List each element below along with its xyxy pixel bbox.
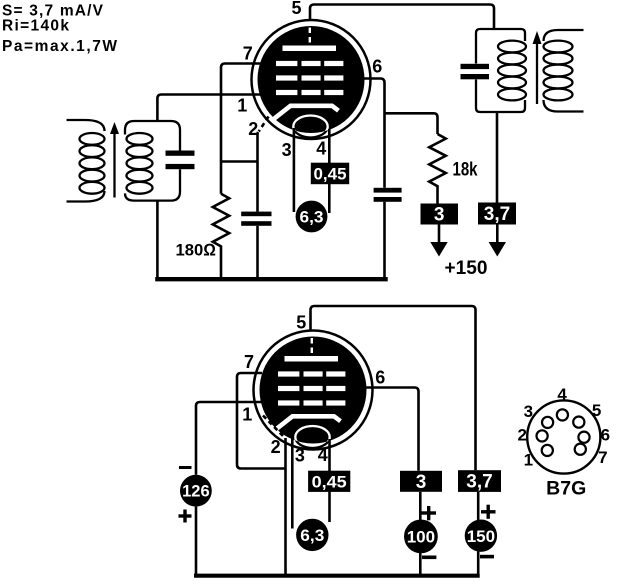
svg-text:6: 6: [601, 426, 610, 445]
svg-text:150: 150: [467, 527, 495, 546]
svg-text:126: 126: [182, 483, 210, 501]
svg-text:2: 2: [517, 426, 526, 445]
svg-text:4: 4: [318, 445, 328, 465]
svg-text:0,45: 0,45: [312, 473, 347, 492]
svg-text:0,45: 0,45: [314, 165, 347, 184]
svg-text:Pa=max.1,7W: Pa=max.1,7W: [2, 38, 117, 55]
svg-text:6: 6: [372, 57, 382, 77]
svg-text:6,3: 6,3: [300, 209, 324, 227]
svg-text:5: 5: [291, 0, 301, 18]
svg-text:6,3: 6,3: [300, 527, 324, 545]
svg-text:7: 7: [243, 44, 253, 64]
svg-text:1: 1: [242, 405, 252, 425]
svg-text:7: 7: [598, 448, 607, 467]
svg-text:3,7: 3,7: [484, 204, 510, 225]
svg-text:2: 2: [248, 119, 258, 139]
svg-text:3: 3: [434, 205, 445, 226]
svg-text:7: 7: [244, 352, 254, 372]
svg-text:+150: +150: [445, 257, 488, 279]
svg-text:1: 1: [237, 96, 247, 116]
svg-text:3: 3: [295, 446, 305, 466]
svg-text:3: 3: [524, 402, 533, 421]
svg-text:1: 1: [524, 451, 533, 470]
svg-text:6: 6: [375, 367, 385, 387]
svg-text:3,7: 3,7: [466, 472, 492, 493]
svg-text:2: 2: [271, 437, 281, 457]
svg-text:5: 5: [592, 401, 601, 420]
svg-text:100: 100: [407, 528, 435, 547]
svg-text:5: 5: [296, 313, 306, 333]
svg-text:B7G: B7G: [546, 478, 586, 500]
svg-text:4: 4: [316, 139, 326, 159]
svg-text:3: 3: [282, 140, 292, 160]
svg-text:4: 4: [557, 385, 567, 404]
svg-text:18k: 18k: [453, 159, 478, 180]
svg-text:3: 3: [416, 472, 427, 493]
svg-text:180Ω: 180Ω: [176, 241, 217, 260]
